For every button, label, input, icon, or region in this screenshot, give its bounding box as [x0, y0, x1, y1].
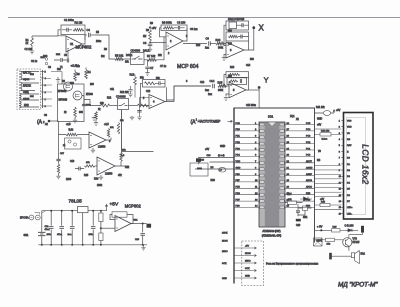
wire U1 output to feedback [82, 35, 85, 44]
svg-text:10k: 10k [100, 103, 105, 105]
capacitor C10 in feedback [237, 23, 249, 27]
svg-text:AVCC: AVCC [306, 186, 312, 189]
ISP dashed box [242, 241, 264, 286]
svg-text:GB1: GB1 [24, 234, 29, 237]
wire mixer output [84, 100, 101, 106]
U5 feedback inner row [227, 78, 247, 85]
transistor box VT1 VT2 [58, 84, 85, 122]
svg-text:MCP 604: MCP 604 [177, 64, 199, 70]
wire divider to U8 [101, 227, 115, 229]
svg-text:R15: R15 [218, 81, 223, 85]
svg-text:VSS: VSS [347, 120, 352, 122]
divider R27 [99, 210, 103, 229]
svg-text:C4: C4 [87, 28, 91, 32]
node Y dot [258, 86, 261, 89]
svg-text:LCD 16x2: LCD 16x2 [361, 144, 370, 184]
capacitor C5 at mixer out [82, 100, 92, 107]
wire left rail down [58, 122, 60, 159]
horizontal frame line [8, 17, 400, 19]
svg-text:1k: 1k [98, 109, 101, 111]
wire U2 out right [183, 43, 207, 45]
svg-text:R43 10k: R43 10k [321, 131, 330, 133]
svg-text:C8: C8 [143, 41, 147, 45]
svg-text:GND: GND [245, 276, 250, 278]
svg-text:C20: C20 [296, 225, 301, 227]
svg-text:GND: GND [220, 146, 225, 148]
svg-text:C10: C10 [240, 19, 245, 21]
svg-text:RS: RS [347, 139, 351, 141]
black bar in SB box [197, 168, 202, 170]
filter cap C22 [47, 210, 54, 246]
wire R13 down [134, 75, 136, 98]
svg-text:GND: GND [317, 119, 322, 121]
svg-text:R8: R8 [150, 23, 154, 25]
wire coil pin5 to mixer [51, 72, 62, 85]
analog switch DA2.1 CD4066 box [131, 53, 145, 65]
capacitor C20 reset [296, 204, 300, 216]
capacitor C9 [206, 37, 211, 46]
svg-text:C7 1н: C7 1н [160, 66, 167, 68]
resistor R17 vertical [74, 107, 77, 118]
resistor R8 vertical [149, 30, 152, 42]
resistor R2 in U1 feedback [73, 29, 84, 32]
resistor R23 vertical [120, 152, 122, 162]
svg-text:10н: 10н [76, 66, 81, 68]
capacitor C7 to ground [145, 60, 150, 76]
capacitor C15 [75, 167, 84, 171]
capacitor C1 in U1 feedback [62, 28, 72, 32]
LCD inner line [347, 118, 366, 215]
svg-text:C3: C3 [48, 67, 52, 69]
capacitor at U4 plus [137, 111, 141, 112]
svg-text:SCK: SCK [222, 263, 227, 265]
MCU left bus line [233, 108, 235, 284]
LED1 black blob [196, 158, 201, 162]
resistor R30 [326, 238, 343, 245]
wire A2 to circuit [50, 120, 59, 122]
resistor R14b [138, 104, 148, 107]
svg-text:R2 1M: R2 1M [75, 21, 83, 25]
node dot sound [320, 229, 322, 231]
battery minus join [41, 244, 43, 246]
trim pot RP1 box [65, 138, 82, 149]
wire R10 to U3 [225, 44, 227, 46]
wire U8 feedback [110, 215, 133, 224]
svg-text:D3: D3 [347, 176, 351, 178]
resistor R5 [115, 58, 124, 61]
divider R28 [99, 228, 103, 246]
svg-text:MISO: MISO [245, 261, 251, 263]
svg-text:R/W: R/W [347, 145, 352, 147]
svg-text:0: 0 [45, 106, 47, 108]
svg-text:ВА1: ВА1 [361, 252, 366, 255]
svg-text:2: 2 [339, 127, 341, 129]
svg-text:GND: GND [236, 168, 241, 170]
+5V arrow above LCD [333, 110, 335, 113]
svg-text:ADC6: ADC6 [306, 179, 313, 182]
transistor VT3 [343, 238, 352, 247]
svg-text:CD4066: CD4066 [131, 49, 141, 53]
wire reset vertical [298, 211, 305, 216]
wire VT3 emitter [348, 246, 350, 251]
wire into DA2.3 [110, 105, 118, 107]
svg-text:DD1: DD1 [268, 115, 274, 119]
resistor R13 vertical [134, 77, 137, 85]
component box XT [314, 238, 323, 246]
wire C4 to R5 [95, 35, 115, 59]
capacitor C12 [128, 86, 132, 93]
wire U8 out [131, 223, 147, 225]
battery connector plug [29, 215, 34, 220]
svg-text:R10: R10 [216, 38, 221, 42]
wire DA2.3 to R14b [129, 105, 138, 107]
svg-text:E: E [347, 151, 349, 153]
switch DA2.2 box in feedback [229, 22, 237, 29]
resistor R9 vertical [95, 112, 98, 120]
capacitor C16 left [56, 158, 60, 164]
resistor R15 [218, 85, 227, 88]
wire U1 out to C4 [85, 35, 87, 40]
svg-text:МД "КРОТ-М": МД "КРОТ-М" [338, 281, 378, 288]
svg-text:+ 5V: + 5V [317, 224, 323, 228]
ground U5 plus [224, 94, 229, 100]
switch SA1 [42, 211, 46, 213]
svg-text:AREF: AREF [306, 173, 312, 176]
op-amp U2 [166, 32, 183, 50]
resistor R3 vertical [74, 72, 77, 82]
black cap C21 [296, 219, 301, 222]
connector pads XS1 [45, 58, 48, 61]
svg-text:(ATMEGA8L-8PI): (ATMEGA8L-8PI) [262, 235, 282, 238]
svg-text:x1: x1 [63, 145, 66, 147]
svg-text:ОБЩ: ОБЩ [23, 91, 29, 94]
svg-text:300: 300 [43, 54, 48, 58]
svg-text:C14: C14 [200, 82, 205, 84]
svg-text:R24: R24 [94, 178, 99, 181]
svg-text:C7: C7 [150, 66, 154, 70]
svg-text:78L05: 78L05 [69, 199, 83, 205]
svg-text:2200: 2200 [66, 179, 72, 181]
ground below R22 [56, 174, 60, 179]
svg-text:3: 3 [230, 48, 232, 52]
svg-text:R5 10k: R5 10k [115, 54, 124, 58]
svg-text:360: 360 [79, 112, 84, 114]
svg-text:LED-: LED- [347, 213, 352, 215]
wire U5 out to fb [246, 77, 249, 90]
svg-text:5: 5 [233, 88, 235, 92]
svg-text:КРОНА: КРОНА [20, 216, 29, 219]
svg-text:D5: D5 [347, 189, 351, 191]
wire LED row1 [198, 157, 234, 159]
svg-text:C9: C9 [206, 37, 210, 41]
wire LCD data lines [315, 166, 342, 197]
resistor R4 vertical [85, 70, 88, 80]
ground below U6 [91, 148, 95, 153]
svg-text:R3: R3 [77, 73, 81, 76]
svg-text:BF998В: BF998В [59, 99, 68, 102]
ground top B [130, 116, 134, 120]
svg-text:SCK: SCK [245, 268, 250, 270]
svg-text:зел: зел [30, 96, 34, 98]
wire R14b to U4 [148, 105, 149, 107]
wire U4 fb [141, 83, 167, 105]
svg-text:MOSI: MOSI [245, 253, 251, 255]
transistor VT2 [73, 91, 82, 100]
svg-text:9: 9 [339, 170, 341, 172]
svg-text:R8: R8 [146, 30, 150, 32]
svg-text:10к: 10к [101, 56, 106, 58]
svg-text:100н: 100н [96, 41, 102, 43]
resistor R18 [66, 133, 78, 136]
svg-text:D2: D2 [347, 170, 351, 172]
op-amp U3 [226, 42, 244, 58]
svg-text:5: 5 [45, 72, 47, 74]
capacitor C8 to ground [148, 42, 153, 52]
svg-text:10k: 10k [110, 127, 114, 129]
wire U4 out to Y path [167, 86, 212, 100]
feedback box U1 [61, 25, 85, 35]
wire U3 fb left [224, 25, 226, 45]
svg-text:1: 1 [339, 120, 341, 122]
wire LCD LED+ with R45 [315, 201, 342, 206]
svg-text:10k: 10k [86, 162, 90, 164]
svg-text:DA2.1: DA2.1 [143, 50, 150, 53]
wire U1 minus to feedback [58, 30, 66, 36]
svg-text:(2 red): (2 red) [218, 154, 225, 157]
svg-text:17: 17 [220, 170, 223, 172]
svg-text:D7: D7 [347, 201, 351, 203]
svg-text:10н: 10н [57, 69, 62, 71]
capacitor C6 in U2 feedback [174, 26, 185, 30]
svg-text:+5V: +5V [245, 246, 249, 248]
svg-text:10k: 10k [120, 120, 124, 122]
svg-text:VT3: VT3 [353, 237, 358, 240]
op-amp U8 [115, 216, 131, 232]
svg-text:C5: C5 [64, 55, 68, 57]
output cap C26 [140, 223, 145, 246]
svg-text:C1 300n: C1 300n [64, 18, 74, 22]
resistor R11 in feedback [229, 35, 239, 37]
svg-text:560: 560 [250, 59, 255, 61]
wire R18 to U6 [59, 134, 90, 136]
svg-text:D1: D1 [347, 164, 351, 166]
svg-text:2: 2 [170, 39, 172, 43]
svg-text:10k: 10k [327, 244, 331, 246]
svg-text:1мк: 1мк [68, 234, 72, 236]
filter cap C24 [68, 210, 75, 246]
wire U2 feedback left [160, 28, 167, 37]
node A2 dot [48, 120, 51, 123]
svg-text:LM358: LM358 [105, 173, 113, 176]
svg-text:5,6k: 5,6k [69, 129, 74, 132]
op-amp U7 [97, 157, 115, 175]
svg-text:+5V: +5V [336, 109, 341, 112]
svg-text:MCP602: MCP602 [125, 204, 142, 209]
svg-text:C19: C19 [70, 161, 75, 163]
svg-text:R12: R12 [107, 98, 112, 100]
svg-text:47мк: 47мк [45, 229, 50, 231]
svg-text:LED+: LED+ [347, 207, 353, 209]
svg-text:D6: D6 [347, 195, 351, 197]
svg-text:1M: 1M [143, 36, 146, 38]
misc value labels group 2 [30, 29, 325, 227]
transistor VT1 [64, 82, 73, 91]
svg-text:Y: Y [264, 76, 269, 85]
svg-text:1k: 1k [26, 42, 29, 45]
svg-text:R4: R4 [88, 71, 92, 74]
svg-text:LM358: LM358 [98, 146, 106, 149]
resistor R6 in U2 feedback [163, 27, 174, 29]
svg-text:вых: вых [56, 54, 61, 56]
coil L1-L2 dashed shield box [17, 69, 41, 110]
resistor R22 vertical [57, 164, 59, 174]
MCU outer box DD1 [234, 108, 315, 243]
svg-text:R29: R29 [333, 227, 338, 229]
svg-text:+5V: +5V [152, 26, 157, 30]
wire U3 output to X node [249, 28, 254, 50]
wire switch control from MCU [122, 110, 154, 152]
connector bar right [361, 226, 364, 233]
U5 feedback outer box [226, 72, 249, 78]
svg-text:RST: RST [287, 194, 292, 196]
U8 feedback box [112, 212, 127, 217]
svg-text:3: 3 [45, 85, 47, 87]
resistor R12 [101, 104, 110, 107]
wire LCD VDD with R43 [315, 131, 342, 141]
MCU chip pins [260, 123, 285, 209]
switch symbol inside DA2.1 [132, 56, 143, 59]
capacitor C2 [54, 58, 68, 62]
MCU chip package [259, 122, 285, 227]
svg-text:D4: D4 [347, 182, 351, 184]
battery GB1 [38, 232, 46, 235]
svg-text:4: 4 [153, 100, 155, 104]
svg-text:экран: экран [23, 98, 30, 101]
svg-text:C11: C11 [110, 89, 115, 91]
svg-text:+2,5: +2,5 [66, 124, 71, 126]
op-amp U1 [66, 36, 82, 52]
wire switch control from MCU [122, 110, 154, 152]
wire U5 out to Y node [249, 89, 260, 91]
wire speaker to bar [332, 255, 352, 257]
svg-text:100н: 100н [89, 234, 95, 236]
ground left of VT1 [56, 77, 60, 82]
svg-text:X: X [259, 24, 265, 33]
svg-text:ATMEGA8 (DIP): ATMEGA8 (DIP) [262, 230, 280, 233]
svg-text:R16: R16 [230, 67, 235, 69]
svg-text:C6 150: C6 150 [177, 21, 186, 25]
coil labels [23, 72, 31, 108]
svg-text:MOSI: MOSI [222, 241, 228, 243]
svg-text:C12: C12 [146, 91, 151, 93]
wire U1 noninv down [67, 50, 69, 58]
svg-text:C2 1н: C2 1н [31, 61, 38, 63]
resistor R20 vertical [117, 123, 119, 135]
op-amp U6 [89, 132, 106, 148]
LED2 ellipse [219, 167, 226, 172]
resistor R1 vertical [30, 36, 34, 54]
svg-text:1мк: 1мк [205, 48, 210, 50]
svg-text:C14: C14 [246, 65, 251, 67]
ground U3 plus [222, 55, 226, 61]
svg-text:MISO: MISO [222, 251, 228, 253]
svg-text:C14: C14 [210, 79, 215, 83]
resistor R21 [85, 165, 96, 167]
diode VD3 [348, 229, 352, 232]
ground below C12 [128, 93, 132, 97]
ground top A [92, 117, 96, 121]
svg-text:VCC: VCC [236, 161, 241, 163]
svg-text:10k: 10k [125, 62, 130, 64]
wire sound row2 [315, 239, 326, 241]
ISP pin arrows [235, 246, 257, 279]
resistor R16 in U5 feedback [228, 73, 240, 75]
wire C15 R21 row [85, 165, 98, 167]
wire bias to U2 plus [150, 42, 166, 44]
svg-text:SB1: SB1 [303, 217, 308, 219]
node +2.5V divider [100, 227, 102, 229]
trimmer RP2 ellipse [323, 111, 330, 116]
wire +5V sound row [315, 229, 332, 231]
wire LED row2 [195, 168, 234, 170]
feedback box U2 [161, 25, 187, 31]
wire input to U1 [32, 35, 58, 37]
svg-text:1k: 1k [64, 112, 67, 114]
filter cap C23 [57, 210, 64, 246]
svg-text:7: 7 [339, 158, 341, 160]
svg-text:2: 2 [168, 53, 170, 55]
svg-text:BF998В: BF998В [58, 90, 67, 93]
svg-text:C9 1мк: C9 1мк [190, 29, 198, 31]
svg-text:R12 10k: R12 10k [120, 92, 129, 94]
arrow to MCU [228, 120, 233, 122]
svg-text:1: 1 [45, 99, 47, 101]
svg-text:R25: R25 [84, 175, 89, 177]
svg-text:R41 10k: R41 10k [316, 107, 325, 109]
U3 feedback inner box [226, 32, 249, 41]
filter cap C25 [89, 210, 96, 246]
svg-text:R6: R6 [104, 49, 108, 51]
switch symbol DA2.3 [119, 103, 128, 106]
svg-text:С26: С26 [135, 239, 140, 241]
svg-text:С-R 296: С-R 296 [345, 225, 355, 228]
svg-text:X2: X2 [296, 119, 300, 121]
tiny texts lowerleft [60, 120, 126, 155]
MCU right pin wires [285, 123, 315, 208]
analog switch DA2.3 box [118, 99, 129, 110]
capacitor C13 in U4 feedback [156, 81, 166, 85]
coil windings [19, 71, 22, 108]
+5V arrow U2 bias [149, 27, 151, 30]
wire LCD LED- [315, 209, 342, 211]
resistor R7 [148, 58, 157, 61]
svg-text:47k: 47k [118, 175, 123, 177]
ISP left labels [222, 233, 228, 281]
svg-text:C21: C21 [45, 226, 50, 228]
resistor R19 vertical [107, 129, 109, 138]
svg-text:U1: U1 [70, 42, 74, 46]
svg-text:100: 100 [90, 84, 95, 86]
svg-text:R45: R45 [321, 201, 326, 203]
wire U2 out to feedback [183, 28, 187, 41]
svg-text:DA2.1: DA2.1 [126, 54, 133, 57]
gnd bar speaker [329, 253, 332, 260]
wire U7 out [115, 162, 129, 167]
svg-text:5: 5 [339, 145, 341, 147]
capacitor C14 [210, 79, 215, 88]
ground U4 plus [140, 98, 150, 118]
LCD pins and labels [339, 120, 354, 215]
